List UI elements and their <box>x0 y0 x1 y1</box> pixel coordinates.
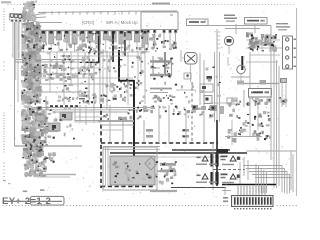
wire bus top-right <box>207 24 271 52</box>
component cluster center-low <box>153 95 176 105</box>
resistor pair R-col <box>146 129 189 138</box>
component scatter right-mid-low <box>227 109 271 143</box>
wires right-col <box>237 78 286 107</box>
vertical wires mid-left <box>46 33 107 146</box>
module box (bottom-left of PSU) <box>110 156 155 185</box>
component cluster (right top) <box>246 32 277 51</box>
label box (mid) <box>187 19 209 26</box>
trace y184.5 (black) <box>222 184 276 186</box>
dark node bar y150 <box>217 149 228 153</box>
U20 lower components <box>144 38 177 51</box>
gray bar y191 <box>150 190 177 192</box>
corner registration marks <box>1 1 170 4</box>
thick trace A (vertical from bus) <box>112 32 114 62</box>
wire y78 <box>42 77 133 79</box>
connector CN5 (bottom, multi-pin) <box>232 196 274 210</box>
component cluster D <box>78 91 97 104</box>
component scatter below U20 <box>151 34 177 53</box>
resistor right-mid <box>281 79 287 83</box>
transistor Q10 (rounded can) <box>181 50 197 82</box>
connector CN2 (right, 4-pin) <box>283 36 297 69</box>
IC row ICx01-ICx15 <box>33 31 147 52</box>
diamond marker <box>145 157 157 170</box>
pin dash row <box>50 105 78 107</box>
page border bottom (dotted) <box>2 205 296 206</box>
small box pair <box>200 84 213 104</box>
wire y122 <box>75 121 101 123</box>
wire y120 <box>75 105 105 122</box>
component row near 192-225 y105 <box>192 105 224 114</box>
caption under row1 <box>196 164 234 166</box>
trace y187 (dark) <box>171 187 226 189</box>
dense board strip (left, main) <box>21 22 42 105</box>
component cluster center C <box>100 81 132 103</box>
component boxes lower-left <box>36 112 72 131</box>
value marks row2 <box>221 174 228 179</box>
component row 2 (below ICs) <box>35 43 147 54</box>
caption wr-a pickup <box>224 15 237 22</box>
thick trace B (vertical) <box>124 32 126 56</box>
caption under row2 <box>196 182 234 184</box>
thick trace C (main black run) <box>118 50 134 162</box>
trace y153 (dark) <box>110 152 247 154</box>
wire grid center-low <box>150 89 196 93</box>
triple wire y108-112 <box>42 108 150 113</box>
wire y84 <box>26 83 108 85</box>
resistor r-mid <box>207 76 213 79</box>
wires from J1 down <box>13 21 28 102</box>
top rail <box>38 11 177 13</box>
component row below label <box>228 97 287 107</box>
inside dashed box wires <box>98 105 144 142</box>
test-point triangle TP3 <box>197 174 209 179</box>
connector side marks <box>223 197 228 202</box>
lower-left border wire <box>15 145 83 147</box>
part number text <box>2 189 64 207</box>
inner box (PSU) <box>103 147 160 191</box>
component scatter center 105-120 <box>150 106 213 119</box>
wires right-mid-low <box>225 105 262 145</box>
wire y52 <box>38 51 150 53</box>
shield box dark bits <box>151 57 174 78</box>
page border top (dotted) <box>8 4 294 5</box>
dashed boundary x192 <box>191 82 193 143</box>
component texture mid band <box>42 59 149 102</box>
vertical wires center <box>200 52 220 122</box>
component scatter mid second pass <box>45 56 142 102</box>
stray specks lower-left <box>3 180 11 184</box>
inside dashed box parts <box>103 100 148 120</box>
wire y131 <box>40 131 58 133</box>
dense board strip (bulge right) <box>41 100 49 146</box>
small caption lower-left <box>79 95 87 99</box>
wires left of CN5 <box>222 187 231 195</box>
capacitor bars C51 <box>210 154 218 167</box>
components right of module <box>155 161 177 184</box>
scan speckle <box>10 8 290 200</box>
wire y74 <box>26 73 90 75</box>
transistor Q31 (circle) <box>224 36 233 54</box>
wire y92 <box>26 91 90 93</box>
svg-text:WR-A | Mock Up: WR-A | Mock Up <box>106 20 138 25</box>
dense board strip (left, tail) <box>24 158 47 177</box>
wire bundle into connector <box>238 186 265 195</box>
label box (right) <box>245 18 268 25</box>
wire y68 <box>26 67 100 69</box>
component scatter lower-left <box>46 108 75 140</box>
caption far right <box>276 23 290 30</box>
component cluster mid-left B <box>81 56 98 78</box>
page border left (dotted) <box>3 8 4 180</box>
wire y103 <box>210 102 232 104</box>
U20 pins <box>141 30 178 49</box>
wire pair y60 <box>15 60 87 63</box>
bus (horizontal) <box>32 30 150 32</box>
dashed segment y169.5 <box>213 169 245 171</box>
vertical wire x213 <box>212 143 214 190</box>
resistor bars <box>160 163 176 172</box>
shield box (thick gray lines) <box>150 52 172 76</box>
test-point triangle TP1 <box>197 156 209 161</box>
test-point triangle TP4 <box>230 174 240 179</box>
value marks row1 <box>221 156 228 161</box>
wires right-mid <box>228 52 279 107</box>
dense board strip (left, top part) <box>22 0 37 22</box>
dense board strip (left, lower) <box>21 105 44 159</box>
blob lower-left <box>44 152 56 163</box>
vert bundle to connector <box>256 164 266 193</box>
transistor Q32 (circle) <box>237 65 245 84</box>
trace y150 (dark) <box>172 149 230 151</box>
nested wires extra <box>244 154 293 193</box>
dark bar near CN2 <box>241 56 243 70</box>
component texture center band <box>153 57 221 103</box>
wire y157 <box>150 156 225 158</box>
dashed box mid line <box>101 142 218 144</box>
thick trace D (elbow) <box>85 33 100 62</box>
wire y117 <box>75 116 107 118</box>
page border right (line) <box>296 8 298 196</box>
dashed box right dark edge <box>216 120 218 186</box>
connector J1 (top-left) <box>10 14 31 22</box>
nested wires (corners) <box>240 151 296 194</box>
right bus wires <box>271 52 279 188</box>
left border wire <box>14 22 16 146</box>
wires from J1 right <box>30 14 46 23</box>
label box (service) <box>249 89 272 98</box>
capacitor bars C52 <box>210 172 218 185</box>
top rail ticks <box>45 12 143 15</box>
wire tail y174 <box>24 175 76 178</box>
dashed box left edge <box>100 104 102 188</box>
svg-text:[CRO]: [CRO] <box>82 20 94 25</box>
dashed box bottom edge <box>101 186 154 188</box>
test-point triangle TP2 <box>230 156 240 161</box>
vertical wires below ICs <box>50 52 145 105</box>
wire stub with ticks <box>217 29 221 52</box>
vertical wires center-bottom <box>159 105 204 143</box>
module box U20 (top) <box>141 12 178 30</box>
wire y56 <box>60 55 140 57</box>
component texture upper band <box>36 33 149 55</box>
component cluster mid-left A <box>43 55 76 80</box>
upper rail 2 <box>36 22 62 24</box>
wire grid right-top <box>246 34 282 62</box>
vertical x86 <box>85 105 87 125</box>
U20 internal marks <box>146 14 173 27</box>
